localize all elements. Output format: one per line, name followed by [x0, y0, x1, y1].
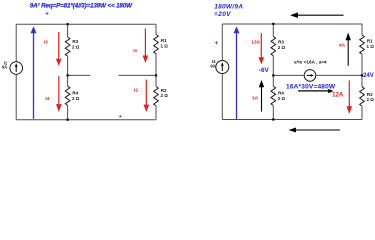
blue current arrow (right circuit) [234, 26, 240, 119]
junction dot bottom of middle branch (right circuit) [272, 118, 274, 120]
svg-text:9A: 9A [210, 64, 215, 69]
wire: right circuit right branch upper [361, 24, 363, 35]
wire: right circuit top [222, 23, 362, 25]
svg-text:2 Ω: 2 Ω [161, 93, 169, 98]
red arrow 13A [251, 33, 264, 64]
junction dot top of middle branch (left circuit) [67, 23, 69, 25]
wire: right branch upper [155, 24, 157, 34]
svg-text:2 Ω: 2 Ω [72, 96, 80, 101]
junction dot right branch / mid wire [361, 74, 363, 76]
wire: right circuit middle branch mid [272, 56, 274, 87]
svg-text:24V: 24V [363, 73, 374, 79]
resistor R1 (right circuit) 1 ohm [360, 35, 375, 54]
dependent current source a*ix = 16A [304, 70, 316, 82]
svg-text:180W/9A: 180W/9A [214, 3, 243, 10]
svg-text:2 Ω: 2 Ω [278, 96, 286, 101]
blue current arrow (source current up, left circuit) [31, 26, 37, 119]
black arrow 4A (up) [339, 33, 351, 66]
svg-text:R1: R1 [367, 39, 373, 44]
svg-text:a*ix =16A , a=4: a*ix =16A , a=4 [294, 59, 327, 64]
junction dot middle branch / stub [67, 74, 69, 76]
svg-text:1 Ω: 1 Ω [367, 44, 375, 49]
wire: right circuit left branch lower [221, 73, 223, 119]
wire: middle net right of dependent source [316, 74, 362, 76]
wire: middle net left of dependent source [273, 74, 304, 76]
svg-text:2 Ω: 2 Ω [278, 45, 286, 50]
wire: right circuit right branch lower [361, 106, 363, 120]
junction dot top of middle branch (right circuit) [272, 23, 274, 25]
wire: left branch lower (from source) [15, 74, 17, 119]
resistor R2 (right circuit) 2 ohm [360, 87, 375, 106]
wire: right circuit bottom [222, 119, 362, 121]
resistor R2 (left circuit) 2 ohm [154, 87, 169, 106]
wire: right branch mid [155, 54, 157, 87]
svg-text:-6V: -6V [259, 67, 270, 74]
black arrow current direction bottom (left) [289, 128, 341, 133]
wire: middle branch upper [67, 24, 69, 37]
svg-text:4A: 4A [339, 43, 346, 49]
wire: mid stub to right branch (cut) [119, 74, 157, 76]
svg-text:R4: R4 [72, 91, 78, 96]
svg-text:Ix: Ix [133, 48, 137, 54]
svg-text:+: + [45, 12, 49, 18]
svg-text:R3: R3 [278, 40, 284, 45]
resistor R4 (left circuit) 2 ohm [65, 86, 79, 105]
resistor R3 (right circuit) 2 ohm [271, 37, 285, 56]
wire: mid stub from middle branch (cut) [68, 74, 91, 76]
red arrow I4 [45, 76, 61, 112]
resistor R3 (left circuit) 2 ohm [65, 37, 79, 56]
svg-text:=20V: =20V [214, 11, 231, 18]
svg-text:13A: 13A [251, 40, 260, 46]
wire: right circuit middle branch lower [272, 106, 274, 120]
wire: right circuit left branch upper [221, 24, 223, 61]
wire: left circuit top [16, 23, 156, 25]
svg-text:3A: 3A [252, 95, 259, 101]
svg-text:I4: I4 [45, 96, 49, 102]
svg-text:R1: R1 [161, 38, 167, 43]
svg-text:R4: R4 [278, 91, 284, 96]
black arrow 3A (up) [252, 80, 264, 112]
svg-text:2 Ω: 2 Ω [367, 97, 375, 102]
red arrow 12A (down) [347, 81, 353, 115]
wire: middle branch lower [67, 105, 69, 119]
junction dot bottom of middle branch [67, 119, 69, 121]
svg-text:+: + [215, 41, 219, 47]
blue minus polarity dot on bottom wire [119, 115, 121, 117]
svg-text:R2: R2 [367, 92, 373, 97]
current source I4 9A (right circuit) [210, 59, 228, 74]
wire: left circuit bottom [16, 119, 156, 121]
black arrow current direction top (left) [290, 12, 344, 18]
junction dot middle branch / mid wire [272, 74, 274, 76]
resistor R4 (right circuit) 2 ohm [271, 86, 285, 105]
wire: right circuit right branch mid [361, 54, 363, 87]
svg-text:R2: R2 [161, 88, 167, 93]
svg-text:9A: 9A [2, 65, 7, 70]
svg-text:I2: I2 [134, 88, 138, 94]
svg-text:9A² Req=P=81*(4//3)=139W << 18: 9A² Req=P=81*(4//3)=139W << 180W [30, 2, 133, 9]
resistor R1 (left circuit) 1 ohm [154, 35, 169, 54]
svg-text:2 Ω: 2 Ω [72, 44, 80, 49]
red arrow I3 [44, 32, 62, 66]
wire: right branch lower [155, 106, 157, 120]
red arrow Ix [133, 29, 148, 64]
red arrow I2 [134, 80, 149, 113]
svg-text:12A: 12A [332, 92, 344, 98]
black arrow power flow right [298, 89, 334, 93]
wire: middle branch mid [67, 56, 69, 86]
current source I1 9A [2, 60, 23, 74]
wire: right circuit middle branch upper [272, 24, 274, 37]
svg-text:I3: I3 [44, 40, 48, 46]
junction dot right branch / stub [155, 74, 157, 76]
svg-text:R3: R3 [72, 39, 78, 44]
wire: left branch upper (to source) [15, 24, 17, 62]
svg-text:1 Ω: 1 Ω [161, 43, 169, 48]
